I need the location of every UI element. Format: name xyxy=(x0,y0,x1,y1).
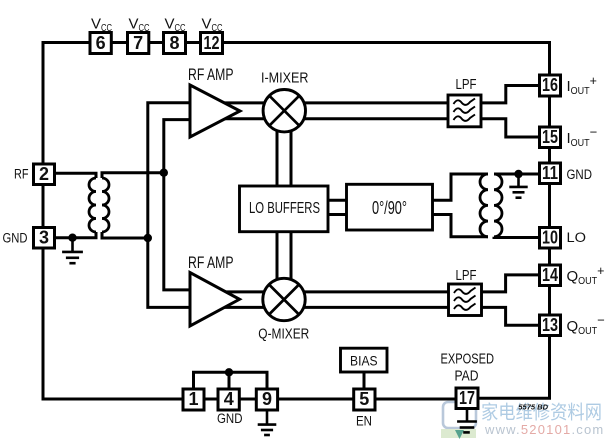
LPF Q box xyxy=(449,284,482,316)
op-amp RF AMP Q xyxy=(190,273,240,327)
wire Q-amp to Q-mixer top xyxy=(214,290,284,293)
svg-text:BIAS: BIAS xyxy=(350,353,378,369)
svg-text:10: 10 xyxy=(542,227,558,247)
junction node LO secondary gnd xyxy=(514,170,522,178)
wire left border xyxy=(42,41,45,401)
ground at LO secondary xyxy=(509,175,527,198)
svg-text:5: 5 xyxy=(359,389,369,409)
wire balun secondary top to RF plus net xyxy=(102,173,164,178)
pin 17 exposed pad xyxy=(456,388,478,409)
wire LPF to pin16 xyxy=(481,86,541,103)
junction node gnd bracket xyxy=(225,368,233,376)
pin 5 xyxy=(354,389,375,410)
pin 13 xyxy=(540,315,561,336)
svg-text:8: 8 xyxy=(169,33,179,53)
wire LO buffers to 0-90 top xyxy=(327,199,347,202)
block BIAS xyxy=(341,348,388,372)
svg-text:GND: GND xyxy=(3,231,28,246)
svg-text:RF AMP: RF AMP xyxy=(188,66,234,84)
wire Q-mixer to LPF top xyxy=(284,290,449,293)
ground at pin17 xyxy=(457,409,477,433)
svg-text:4: 4 xyxy=(224,389,234,409)
wire LO buffers to Q-mixer leads xyxy=(277,231,291,299)
wire balun secondary bottom to RF minus net xyxy=(102,232,148,238)
svg-text:6: 6 xyxy=(96,33,106,53)
wire gnd bracket pins 1-4-9 xyxy=(194,372,268,390)
svg-text:9: 9 xyxy=(262,389,272,409)
wire I-amp to I-mixer bottom xyxy=(214,117,284,120)
pin 11 xyxy=(540,163,561,184)
svg-text:15: 15 xyxy=(542,127,558,147)
wire balun primary bottom to pin3 xyxy=(55,232,97,238)
wire I-mixer to LPF top xyxy=(284,101,449,104)
wire I-mixer LO leads xyxy=(277,120,291,187)
block LO BUFFERS xyxy=(240,186,329,232)
wire 0-90 to LO balun bottom xyxy=(432,215,488,237)
junction node secondary plus xyxy=(160,169,168,177)
pin 15 xyxy=(540,127,561,148)
watermark logo 520101 xyxy=(441,402,476,439)
wire RF plus net vertical xyxy=(164,120,190,290)
pin 14 xyxy=(540,265,561,286)
svg-text:EN: EN xyxy=(356,414,372,429)
wire top border xyxy=(42,41,552,44)
wire right border xyxy=(477,41,550,398)
wire LO balun secondary to pin11 xyxy=(494,173,541,176)
svg-text:17: 17 xyxy=(459,388,475,408)
pin 16 xyxy=(540,75,561,96)
wire LPF to pin15 xyxy=(481,119,541,137)
wire bottom border xyxy=(42,398,458,401)
svg-text:PAD: PAD xyxy=(455,368,479,385)
svg-text:7: 7 xyxy=(133,33,143,53)
svg-text:RF: RF xyxy=(14,167,29,182)
svg-text:14: 14 xyxy=(542,265,558,285)
wire bias stub xyxy=(363,371,366,390)
balun T2 secondary winding xyxy=(494,174,502,237)
svg-text:13: 13 xyxy=(542,315,558,335)
junction node secondary minus xyxy=(144,234,152,242)
balun T2 primary winding xyxy=(480,174,488,237)
pin 4 xyxy=(218,389,239,410)
pin 10 xyxy=(540,227,561,248)
wire Q-amp to Q-mixer bottom xyxy=(214,306,284,309)
wire 0-90 to LO balun top xyxy=(432,174,488,200)
svg-text:1: 1 xyxy=(188,389,198,409)
svg-text:GND: GND xyxy=(567,167,593,182)
wire LPF to pin14 xyxy=(482,275,541,292)
svg-text:2: 2 xyxy=(39,164,49,184)
pin 6 xyxy=(90,33,111,54)
svg-text:EXPOSED: EXPOSED xyxy=(441,351,495,368)
ground at pin9 xyxy=(258,410,277,435)
wire I-mixer to LPF bottom xyxy=(284,117,449,120)
svg-text:RF AMP: RF AMP xyxy=(188,254,234,272)
mixer I circle xyxy=(263,90,305,132)
pin 7 xyxy=(128,33,149,54)
svg-text:GND: GND xyxy=(217,411,243,426)
pin 9 xyxy=(256,389,277,410)
block 0/90 xyxy=(347,184,433,230)
svg-text:11: 11 xyxy=(542,163,558,183)
svg-text:5575 BD: 5575 BD xyxy=(518,403,548,412)
wire LO balun secondary to pin10 xyxy=(494,235,541,239)
op-amp RF AMP I xyxy=(190,85,240,137)
wire LO buffers to 0-90 bottom xyxy=(327,213,347,216)
svg-text:www.520101.com: www.520101.com xyxy=(484,422,604,437)
ground at pin3 node xyxy=(62,239,83,263)
svg-text:Q-MIXER: Q-MIXER xyxy=(258,326,309,343)
LPF I box xyxy=(448,95,481,127)
pin 3 xyxy=(34,227,55,248)
wire pin2 to balun primary xyxy=(55,173,97,178)
balun T1 secondary winding xyxy=(102,178,109,232)
pin 2 xyxy=(34,164,55,185)
svg-text:LPF: LPF xyxy=(456,76,477,93)
svg-text:I-MIXER: I-MIXER xyxy=(261,70,309,87)
wire Q-mixer to LPF bottom xyxy=(284,306,449,309)
pin 1 xyxy=(183,389,204,410)
svg-text:3: 3 xyxy=(39,227,49,247)
svg-text:16: 16 xyxy=(542,75,558,95)
svg-text:LPF: LPF xyxy=(456,267,477,284)
wire LPF to pin13 xyxy=(482,307,541,325)
balun T1 primary winding xyxy=(89,178,96,232)
svg-text:LO BUFFERS: LO BUFFERS xyxy=(249,200,320,217)
wire I-amp to I-mixer top xyxy=(214,101,284,104)
svg-text:0°/90°: 0°/90° xyxy=(372,198,407,218)
pin 8 xyxy=(164,33,186,54)
pin 12 xyxy=(201,33,223,54)
wire RF minus net vertical xyxy=(148,103,190,308)
mixer Q circle xyxy=(263,278,305,320)
svg-text:LO: LO xyxy=(567,230,587,245)
label EXPOSED PAD xyxy=(441,351,495,385)
svg-text:12: 12 xyxy=(204,33,220,53)
junction node pin3 gnd xyxy=(68,234,76,242)
